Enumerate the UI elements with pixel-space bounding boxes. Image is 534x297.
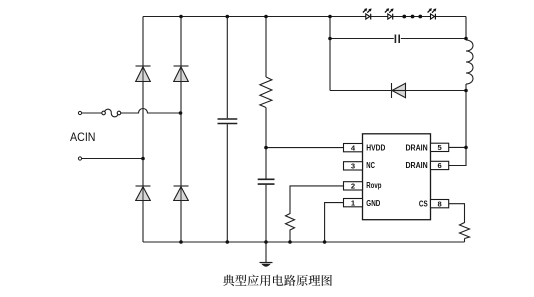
node ACIN-neutral	[141, 157, 145, 161]
LED3	[428, 8, 437, 19]
terminal ACIN top	[78, 111, 81, 114]
node rail-LED	[328, 15, 332, 19]
svg-text:GND: GND	[366, 199, 380, 208]
wire ACIN live	[80, 109, 181, 114]
capacitor C1 (bulk)	[218, 119, 238, 124]
LED1	[363, 8, 372, 19]
wire CS resistor to bus	[464, 239, 466, 243]
wire GND pin1	[325, 203, 344, 242]
diode D4 bridge	[174, 186, 189, 201]
node DRAIN	[464, 146, 468, 150]
diode D2 bridge	[174, 66, 189, 82]
wire bottom bus	[143, 241, 465, 243]
pin 6 box	[431, 161, 449, 170]
title 典型应用电路原理图	[223, 275, 332, 286]
diode D5 freewheel	[392, 83, 406, 98]
svg-text:NC: NC	[366, 161, 375, 170]
wire bridge right leg	[180, 17, 182, 243]
capacitor C2 (HVDD)	[258, 179, 275, 184]
wire inductor to DRAIN pins	[449, 84, 466, 166]
wire DRAIN pin5	[449, 146, 466, 148]
LED2	[385, 8, 394, 19]
svg-text:CS: CS	[419, 200, 428, 209]
pin 4 box	[344, 143, 363, 152]
wire through bridge diodes	[143, 67, 181, 201]
svg-text:3: 3	[351, 162, 355, 171]
node diode-right	[464, 89, 468, 93]
terminal ACIN bottom	[78, 157, 81, 160]
ground	[260, 263, 273, 267]
wire bulk-cap branch	[226, 17, 228, 243]
IC U1 body	[363, 134, 431, 220]
wire snubber-cap line	[330, 38, 466, 40]
svg-text:8: 8	[437, 199, 441, 208]
node ACIN-live	[179, 111, 183, 115]
capacitor C3 (snubber)	[395, 35, 399, 44]
node HVDD	[264, 146, 268, 150]
wire ground stub	[265, 242, 267, 262]
node snubber-right	[464, 37, 468, 41]
wire HVDD pin4	[266, 147, 344, 149]
node rail-D2	[179, 15, 183, 19]
wire right leg rail to inductor	[465, 17, 467, 41]
node rail-R1	[264, 15, 268, 19]
node bus-C1	[226, 240, 230, 244]
resistor R2 (Rovp)	[286, 212, 295, 231]
wire Rovp resistor to bus	[289, 231, 291, 243]
inductor L1	[466, 40, 473, 84]
fuse F1	[102, 109, 121, 117]
LED ellipsis dots	[402, 15, 406, 19]
svg-text:ACIN: ACIN	[70, 132, 96, 144]
pin 2 box	[344, 182, 363, 191]
wire top rail	[143, 16, 466, 18]
svg-text:DRAIN: DRAIN	[406, 161, 429, 170]
diode D3 bridge	[136, 186, 151, 201]
svg-text:Rovp: Rovp	[366, 181, 381, 190]
node bus-GND1	[323, 240, 327, 244]
node bus-D4	[179, 240, 183, 244]
wire resistor-cap branch	[265, 17, 267, 243]
svg-text:2: 2	[351, 182, 355, 191]
diode D1 bridge	[136, 66, 151, 82]
wire ACIN neutral	[80, 158, 143, 160]
svg-text:HVDD: HVDD	[366, 143, 385, 152]
svg-text:6: 6	[437, 161, 441, 170]
svg-text:DRAIN: DRAIN	[406, 143, 429, 152]
node rail-C1	[226, 15, 230, 19]
pin 5 box	[431, 143, 449, 152]
pin 8 box	[431, 199, 449, 208]
pin 1 box	[344, 198, 363, 207]
resistor R3 (CS sense)	[460, 221, 470, 239]
wire LED block left leg	[329, 17, 331, 91]
wire CS pin8	[449, 204, 465, 221]
node bus-R2	[288, 240, 292, 244]
pin 3 box	[344, 162, 363, 171]
wire freewheel diode line	[330, 90, 466, 92]
wire bridge left leg	[142, 17, 144, 243]
node snubber-left	[328, 37, 332, 41]
node bus-gnd	[264, 240, 268, 244]
resistor R1 (bulk branch)	[260, 77, 272, 108]
wire Rovp pin2	[290, 186, 344, 212]
